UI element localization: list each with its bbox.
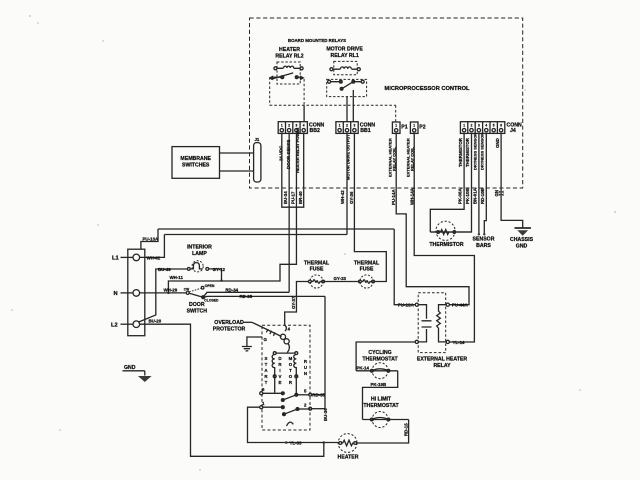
svg-text:WH-42: WH-42	[147, 255, 161, 260]
BB2 wire-label box	[282, 189, 304, 208]
interior lamp label	[187, 245, 212, 258]
svg-text:L2: L2	[111, 322, 118, 328]
motor winding bus	[276, 352, 295, 354]
relay RL2 label	[275, 47, 303, 60]
svg-text:MOTOR DRIVE: MOTOR DRIVE	[326, 47, 363, 53]
relay RL2 coil	[274, 66, 303, 70]
chassis gnd symbol	[515, 227, 531, 229]
svg-text:THERMISTOR: THERMISTOR	[458, 137, 463, 167]
svg-text:PU-17: PU-17	[290, 191, 295, 204]
svg-text:BN-01A: BN-01A	[473, 187, 478, 204]
svg-text:INTERIOR: INTERIOR	[187, 245, 212, 251]
wire RD-34 door to control	[203, 292, 289, 297]
svg-text:THERMOSTAT: THERMOSTAT	[362, 356, 398, 362]
centrifugal actuator hook	[287, 422, 294, 426]
connector P1	[392, 122, 407, 133]
wire RL1 to BB1 pin3	[352, 90, 354, 122]
winding labels	[264, 356, 308, 385]
interior lamp	[187, 261, 208, 272]
svg-text:THERMAL: THERMAL	[354, 260, 380, 266]
svg-text:L1: L1	[112, 256, 119, 262]
connector P2	[410, 122, 425, 133]
svg-text:S: S	[265, 356, 268, 361]
svg-text:PK-14: PK-14	[357, 365, 370, 370]
svg-text:DRYNESS SENSOR: DRYNESS SENSOR	[472, 133, 477, 170]
svg-text:WH-14A: WH-14A	[409, 187, 414, 205]
svg-text:MEMBRANE: MEMBRANE	[180, 156, 211, 162]
svg-text:HEATER: HEATER	[338, 455, 359, 461]
svg-text:T: T	[289, 368, 292, 373]
svg-text:BU-36: BU-36	[323, 408, 328, 421]
svg-text:CYCLING: CYCLING	[368, 350, 391, 356]
svg-text:EXTERNAL HEATER: EXTERNAL HEATER	[417, 356, 467, 362]
connector CONN J4	[460, 122, 522, 134]
thermistor	[430, 221, 471, 240]
svg-text:DRYNESS SENSOR: DRYNESS SENSOR	[480, 133, 485, 170]
svg-text:GY-37: GY-37	[291, 296, 296, 309]
svg-text:PU-13A: PU-13A	[143, 237, 159, 242]
wire J4 pin2 to thermistor right	[430, 133, 471, 232]
external heater relay box	[418, 293, 446, 353]
svg-text:SWITCH: SWITCH	[187, 308, 208, 314]
svg-text:RD-15: RD-15	[403, 423, 408, 436]
svg-text:WH-42: WH-42	[340, 190, 345, 204]
hi limit thermostat	[363, 412, 409, 428]
svg-text:N: N	[304, 371, 307, 376]
bus wire WH-42 (second)	[164, 234, 347, 236]
svg-text:O: O	[289, 362, 293, 367]
svg-text:M: M	[289, 356, 293, 361]
svg-text:CW: CW	[184, 287, 189, 291]
thermal fuse 1 label	[304, 260, 330, 272]
thermal fuse 2	[359, 275, 375, 288]
svg-text:GN: GN	[494, 190, 499, 197]
connector CONN BB1	[336, 122, 375, 134]
wire L2 diagonal riser to lamp	[139, 269, 187, 322]
motor enclosure dashed box	[262, 325, 310, 430]
svg-text:BU-34: BU-34	[283, 191, 288, 204]
wire RL2 contact to BB2 pin4	[303, 105, 305, 121]
terminal L1	[133, 254, 140, 261]
wire BB2 pin4 down	[303, 133, 305, 188]
svg-text:GND: GND	[495, 138, 500, 148]
wire GY-12 lamp to neutral	[209, 269, 222, 281]
svg-text:2: 2	[288, 124, 290, 128]
relay RL1 coil	[330, 67, 360, 71]
wire PU-13A bus drop to relay	[394, 229, 415, 305]
wire BB1 pin3 GY-36 to fuse2	[354, 133, 386, 281]
relay RL2 enclosure skirt	[270, 77, 304, 105]
wire RD-35 vertical	[324, 296, 326, 408]
wire membrane to J1 upper	[220, 152, 254, 154]
relay RL1 contact	[328, 80, 365, 90]
relay RL2 contact	[270, 73, 303, 79]
svg-text:3: 3	[296, 124, 298, 128]
wire GY-37 fuse feed to overload protector	[285, 282, 309, 326]
svg-text:YL-33: YL-33	[290, 440, 303, 445]
svg-text:RD-34: RD-34	[225, 288, 238, 293]
svg-text:HI LIMIT: HI LIMIT	[371, 397, 392, 403]
wire motor loop to heater line	[248, 407, 340, 442]
svg-text:O: O	[289, 374, 293, 379]
svg-text:T: T	[265, 380, 268, 385]
svg-text:CLOSED: CLOSED	[204, 299, 219, 303]
svg-text:BU-49: BU-49	[158, 267, 171, 272]
sensor bar tips	[478, 233, 480, 235]
svg-text:GY-12: GY-12	[213, 267, 226, 272]
svg-text:GND: GND	[124, 365, 136, 371]
wire J4 pin3 sensor bar	[478, 133, 480, 234]
relay RL1 coil box	[334, 61, 357, 74]
wire BB2 pin2 down to door sense	[288, 133, 290, 292]
chassis gnd label	[510, 237, 534, 250]
svg-text:5: 5	[493, 124, 495, 128]
ext relay contact	[446, 303, 449, 306]
svg-text:RELAY RL2: RELAY RL2	[275, 54, 303, 60]
svg-text:P1: P1	[401, 125, 407, 131]
ext relay coil bottom terminal	[415, 340, 418, 343]
svg-text:THERMOSTAT: THERMOSTAT	[363, 403, 399, 409]
svg-text:V: V	[279, 374, 282, 379]
wire P1 to ext relay contact top	[396, 133, 469, 304]
overload protector label	[213, 320, 246, 333]
wire RD-35 door to motor	[203, 295, 325, 298]
wire heater to hi-limit	[357, 420, 409, 444]
svg-text:T: T	[265, 362, 268, 367]
terminal L2	[133, 321, 140, 328]
wire GY-33 between fuses	[325, 281, 360, 283]
wire N to door switch	[140, 292, 186, 294]
ext relay coil terminal PU-13A	[415, 303, 418, 306]
svg-text:THERMISTOR: THERMISTOR	[465, 137, 470, 167]
svg-text:4: 4	[303, 124, 305, 128]
wire ext relay to cycling tstat	[356, 342, 415, 371]
svg-text:WH-29: WH-29	[164, 288, 178, 293]
wire J4 pin4 sensor bar	[484, 133, 486, 234]
gnd symbol (left)	[123, 365, 152, 382]
ground G wire	[247, 337, 262, 346]
terminal N	[133, 290, 140, 297]
bus wire PU-13A (top)	[158, 228, 394, 230]
svg-text:DOOR: DOOR	[189, 302, 205, 308]
svg-text:OPEN: OPEN	[205, 284, 215, 288]
svg-text:3: 3	[354, 124, 356, 128]
external heater relay label	[417, 356, 467, 369]
board relays dashed base line	[270, 105, 396, 121]
svg-text:BU-20: BU-20	[149, 319, 162, 324]
wire BB1 pin2 riser (bus2 end)	[346, 133, 348, 234]
svg-text:OVERLOAD: OVERLOAD	[214, 320, 244, 326]
sensor bars label	[473, 237, 495, 250]
svg-text:RELAY RL1: RELAY RL1	[330, 53, 358, 59]
svg-text:PK-19B: PK-19B	[371, 382, 387, 387]
svg-text:WH-11: WH-11	[170, 275, 184, 280]
run winding	[294, 355, 297, 395]
heater element	[338, 434, 357, 453]
svg-text:MOTOR DRIVE OUTPUT: MOTOR DRIVE OUTPUT	[345, 134, 350, 180]
svg-text:PROTECTOR: PROTECTOR	[213, 327, 246, 333]
svg-text:I: I	[279, 368, 280, 373]
junction N riser	[167, 292, 169, 294]
svg-text:2: 2	[346, 124, 348, 128]
wire BB2 pin1 down	[281, 133, 283, 188]
wire J4 pin1 to thermistor left	[430, 133, 464, 232]
svg-text:RELAY: RELAY	[433, 363, 451, 369]
cycling thermostat label	[362, 350, 398, 363]
wire membrane to J1 lower	[220, 170, 254, 172]
svg-text:LAMP: LAMP	[192, 251, 207, 257]
svg-text:GND: GND	[516, 244, 528, 250]
connector CONN BB2	[278, 122, 324, 134]
svg-text:BB2: BB2	[310, 128, 320, 134]
door switch label	[187, 302, 208, 314]
svg-text:THERMISTOR: THERMISTOR	[429, 242, 463, 248]
membrane switches box	[172, 147, 220, 179]
overload protector element	[252, 322, 291, 352]
svg-text:1: 1	[339, 124, 341, 128]
wire BB2 pin3 step to WH-11 neutral	[168, 133, 296, 293]
svg-text:RD-35: RD-35	[240, 294, 253, 299]
svg-text:BOARD MOUNTED RELAYS: BOARD MOUNTED RELAYS	[288, 38, 346, 43]
svg-text:1: 1	[281, 124, 283, 128]
wire labels below control box (vertical)	[283, 187, 499, 205]
svg-text:HEATER: HEATER	[279, 47, 300, 53]
svg-text:N: N	[114, 291, 118, 297]
wire cycling to hi-limit	[363, 371, 398, 420]
svg-text:1: 1	[463, 124, 465, 128]
svg-text:RD-35: RD-35	[312, 393, 325, 398]
svg-text:FUSE: FUSE	[310, 267, 324, 273]
thermal fuse 1	[309, 275, 325, 288]
svg-text:J4: J4	[510, 128, 516, 134]
inline connector symbol on gnd wire	[499, 191, 504, 197]
svg-text:DOOR SENSE: DOOR SENSE	[286, 140, 291, 169]
svg-text:G: G	[264, 337, 268, 342]
svg-text:PK-10B: PK-10B	[465, 188, 470, 204]
wire P2 to ext relay contact bottom	[414, 133, 474, 342]
connector J1	[254, 143, 261, 182]
svg-text:1: 1	[395, 124, 397, 128]
svg-text:BB1: BB1	[360, 128, 370, 134]
svg-text:BR-40: BR-40	[298, 191, 303, 204]
svg-text:24 VDC: 24 VDC	[279, 145, 284, 161]
svg-text:MICROPROCESSOR CONTROL: MICROPROCESSOR CONTROL	[385, 86, 471, 92]
wire J4 pin6 to chassis gnd	[501, 133, 523, 227]
wire PU-13A riser from terminal block	[141, 229, 158, 249]
terminal block	[128, 249, 145, 336]
svg-text:2: 2	[471, 124, 473, 128]
junction heater line	[285, 441, 288, 444]
svg-text:SENSOR: SENSOR	[473, 237, 495, 243]
start winding	[272, 355, 275, 393]
svg-text:GY-33: GY-33	[334, 276, 347, 281]
hi limit thermostat label	[363, 397, 399, 410]
svg-text:6: 6	[500, 124, 502, 128]
relay RL1 contact box	[327, 79, 367, 96]
svg-text:E: E	[279, 380, 282, 385]
svg-text:CHASSIS: CHASSIS	[510, 237, 534, 243]
cycling thermostat	[356, 363, 398, 379]
overload protector pointer	[243, 321, 252, 323]
svg-text:PK-08A: PK-08A	[458, 188, 463, 204]
relay RL2 coil box	[277, 62, 300, 84]
svg-text:YL-14: YL-14	[453, 340, 466, 345]
wire RL1 to BB1 pin2	[346, 97, 348, 122]
thermal fuse 2 label	[354, 260, 380, 272]
wire BU-20 L2 to bottom loop	[140, 324, 324, 456]
relay RL1 label	[326, 47, 363, 60]
door switch	[184, 284, 219, 303]
svg-text:U: U	[304, 365, 307, 370]
ext relay coil	[418, 305, 431, 342]
centrifugal switch row 1-2	[260, 401, 325, 416]
microprocessor control dashed enclosure	[250, 18, 523, 188]
svg-text:4: 4	[485, 124, 487, 128]
svg-text:SWITCHES: SWITCHES	[182, 163, 210, 169]
svg-text:D: D	[278, 356, 281, 361]
svg-text:J1: J1	[254, 137, 259, 142]
svg-text:BARS: BARS	[476, 243, 491, 249]
svg-text:3: 3	[478, 124, 480, 128]
svg-text:GY-36: GY-36	[349, 191, 354, 204]
pin function labels (vertical)	[279, 127, 500, 180]
wire WH-42 from L1	[140, 235, 165, 258]
svg-text:PU-14A: PU-14A	[391, 189, 396, 205]
svg-text:THERMAL: THERMAL	[304, 260, 330, 266]
svg-text:FUSE: FUSE	[360, 267, 374, 273]
svg-text:1: 1	[413, 124, 415, 128]
svg-text:PU-44A: PU-44A	[452, 303, 468, 308]
centrifugal switch row 5-6	[260, 387, 326, 401]
svg-text:RD-10B: RD-10B	[480, 188, 485, 204]
ground G symbol	[242, 347, 252, 351]
svg-text:P2: P2	[419, 125, 425, 131]
